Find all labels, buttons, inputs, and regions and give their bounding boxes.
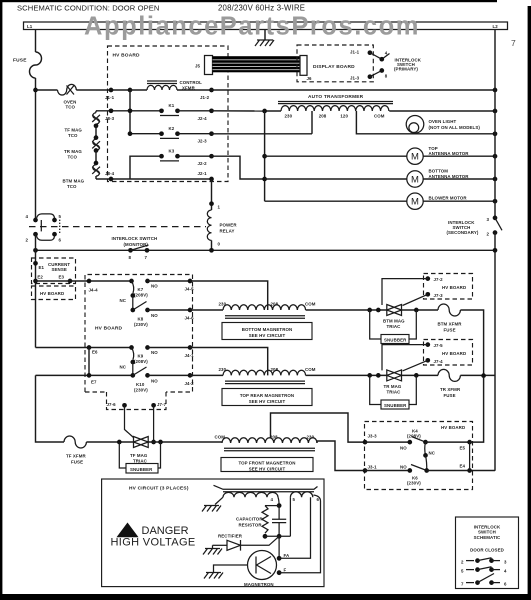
capacitor: [272, 506, 286, 537]
node left bus / oven TCO row: [33, 88, 38, 93]
svg-text:TCO: TCO: [66, 105, 76, 110]
ground at top bus: [255, 30, 274, 47]
svg-text:TR XFMR: TR XFMR: [440, 387, 461, 392]
wire blower motor row: [265, 200, 407, 202]
svg-text:AppliancePartsPros.com: AppliancePartsPros.com: [84, 13, 420, 41]
rectifier: [213, 534, 280, 551]
svg-text:J3-1: J3-1: [368, 464, 378, 469]
svg-text:TR MAG: TR MAG: [384, 384, 402, 389]
node E3: [68, 279, 73, 284]
node J2-2: [209, 154, 214, 159]
display board dashed outline: [297, 45, 373, 82]
svg-text:(208V): (208V): [134, 359, 148, 364]
svg-text:BOTTOM: BOTTOM: [429, 169, 449, 174]
svg-text:COM: COM: [374, 114, 385, 119]
oven TCO thermal cutout: [58, 84, 77, 109]
svg-text:SEE HV CIRCUIT: SEE HV CIRCUIT: [249, 333, 286, 338]
wire BTM triac right: [402, 309, 439, 311]
svg-text:TRIAC: TRIAC: [133, 459, 148, 464]
wire K3 row left with drop to J8-4 row: [130, 156, 162, 179]
svg-text:J6: J6: [307, 76, 313, 81]
node J2-1: [209, 177, 214, 182]
wire node to FA: [278, 536, 280, 558]
svg-text:M: M: [411, 197, 419, 208]
svg-text:FUSE: FUSE: [13, 58, 27, 64]
wire E5 to fuse junction drop: [470, 377, 484, 442]
wire node A to resistor: [265, 505, 279, 507]
wire E2-E3 to J4-4: [36, 280, 132, 282]
svg-text:CURRENT: CURRENT: [48, 262, 70, 267]
svg-text:J2-1: J2-1: [198, 171, 208, 176]
node J1-2: [209, 88, 214, 93]
wire top antenna motor to bus: [423, 155, 495, 157]
svg-text:NC: NC: [120, 365, 127, 370]
TCO chain top wire J8-3: [96, 110, 162, 112]
wire J2-4 to 230V tap junction: [212, 110, 265, 112]
wire J8-4 row: [96, 178, 212, 180]
top front magnetron callout box: [221, 458, 313, 472]
node J2-4: [209, 108, 214, 113]
svg-text:7: 7: [511, 38, 516, 48]
ribbon cable J5 to J6: [213, 56, 301, 72]
danger triangle: [117, 523, 139, 538]
node y250 left bus: [33, 248, 38, 253]
top rear magnetron callout box: [222, 389, 312, 406]
wire 230 tap to left: [265, 110, 281, 112]
node L2 bus row1: [493, 88, 498, 93]
svg-text:RESISTOR: RESISTOR: [239, 523, 263, 528]
node E2: [33, 279, 38, 284]
svg-text:J7-3: J7-3: [434, 293, 444, 298]
wire filament left drop: [289, 497, 291, 536]
node x130 row3: [128, 131, 133, 136]
page border right: [528, 6, 531, 600]
svg-text:TOP REAR MAGNETRON: TOP REAR MAGNETRON: [240, 393, 294, 398]
bottom magnetron callout box: [222, 323, 312, 340]
svg-text:J4-4: J4-4: [89, 288, 99, 293]
node J7-7 at wire: [151, 440, 156, 445]
svg-text:SCHEMATIC CONDITION: DOOR OPEN: SCHEMATIC CONDITION: DOOR OPEN: [17, 4, 160, 13]
ground at rectifier: [203, 545, 222, 554]
wire TR fuse to junction: [460, 374, 495, 376]
HV board (relay board) dashed outline: [85, 275, 193, 410]
svg-text:TRIAC: TRIAC: [387, 390, 402, 395]
relay contact K2: [159, 126, 180, 139]
node BTM snubber right: [414, 308, 419, 313]
node J3-3: [363, 440, 368, 445]
node J2-3: [209, 131, 214, 136]
relay contact K8: [130, 296, 158, 328]
wire 120 tap down and right: [356, 111, 495, 134]
bottom antenna motor: [407, 169, 470, 188]
svg-text:K10: K10: [136, 382, 145, 387]
svg-text:POWER: POWER: [220, 223, 238, 228]
svg-text:MAGNETRON: MAGNETRON: [244, 582, 274, 587]
BTM XFMR fuse: [438, 304, 463, 333]
page border bottom: [0, 594, 531, 600]
node TR snubber left: [367, 373, 372, 378]
svg-text:E7: E7: [91, 380, 97, 385]
node J4-1: [188, 345, 193, 350]
wire FA to filament: [279, 497, 310, 558]
wire K6 common to E4: [427, 470, 495, 472]
svg-text:OVEN LIGHT: OVEN LIGHT: [429, 119, 457, 124]
svg-text:TOP: TOP: [429, 146, 438, 151]
HV board (main) dashed outline: [108, 46, 229, 182]
node display J1-3: [368, 74, 373, 79]
top front magnetron transformer primary: [215, 435, 318, 451]
svg-text:J3-3: J3-3: [368, 434, 378, 439]
svg-text:E2: E2: [37, 275, 43, 280]
svg-text:E5: E5: [460, 446, 466, 451]
svg-text:TRIAC: TRIAC: [387, 324, 402, 329]
interlock switch secondary: [447, 216, 503, 237]
svg-text:TCO: TCO: [68, 133, 78, 138]
bottom magnetron transformer primary: [219, 302, 316, 319]
node relay on y250: [209, 248, 214, 253]
relay contact K1: [159, 103, 180, 116]
svg-text:SENSE: SENSE: [52, 267, 67, 272]
svg-text:J2-2: J2-2: [198, 161, 208, 166]
relay contact K6: [365, 464, 429, 485]
wire top antenna motor row: [265, 155, 407, 157]
node TR snubber right: [414, 373, 419, 378]
svg-text:E1: E1: [39, 265, 45, 270]
blower motor: [407, 193, 468, 209]
svg-text:(NOT ON ALL MODELS): (NOT ON ALL MODELS): [429, 125, 481, 130]
svg-text:NC: NC: [120, 298, 127, 303]
svg-text:K8: K8: [138, 317, 144, 322]
HV transformer secondary: [214, 485, 318, 502]
page border left: [0, 0, 2, 595]
wire K10 NO to J4-2: [148, 374, 191, 376]
left bus to TF fuse row: [36, 375, 65, 442]
svg-text:(230V): (230V): [134, 322, 148, 327]
svg-text:TR MAG: TR MAG: [64, 149, 82, 154]
wire J2-2 jog to bottom antenna row: [212, 156, 265, 179]
svg-text:J8-4: J8-4: [105, 171, 115, 176]
svg-text:HV BOARD: HV BOARD: [95, 326, 123, 332]
svg-text:HV BOARD: HV BOARD: [442, 285, 466, 290]
door switch row 2-3: [461, 558, 507, 565]
svg-text:TOP FRONT MAGNETRON: TOP FRONT MAGNETRON: [238, 461, 295, 466]
svg-text:TF MAG: TF MAG: [130, 453, 148, 458]
svg-text:SEE HV CIRCUIT: SEE HV CIRCUIT: [249, 399, 286, 404]
svg-text:NO: NO: [400, 446, 407, 451]
relay contact K10: [130, 362, 158, 393]
node J8-3: [109, 108, 114, 113]
svg-text:M: M: [411, 152, 419, 163]
wire K1 to J2-4: [178, 110, 212, 112]
svg-text:SNUBBER: SNUBBER: [384, 403, 407, 408]
svg-text:M: M: [411, 174, 419, 185]
svg-text:NO: NO: [400, 464, 407, 469]
svg-text:NO: NO: [151, 350, 158, 355]
wire bottom antenna motor to bus: [423, 178, 495, 180]
L1-L2 supply bus box: [24, 22, 508, 30]
svg-text:INTERLOCK SWITCH: INTERLOCK SWITCH: [112, 236, 158, 241]
wire J7-5 to triac: [382, 345, 428, 371]
vertical link x130 rows 1-3: [129, 90, 131, 134]
node E6: [87, 345, 92, 350]
TCO chain (TF/TR/BTM MAG TCO): [63, 111, 101, 189]
fuse (line fuse): [30, 52, 42, 78]
node display J1-1: [368, 50, 373, 55]
wire J7-3 gate: [403, 294, 428, 305]
L2 bus upper segment: [494, 30, 496, 218]
magnetron: [244, 551, 277, 588]
monitor switch contact 8-7: [128, 245, 149, 260]
svg-text:HV BOARD: HV BOARD: [441, 425, 465, 430]
wire E5-E4 link: [469, 442, 471, 470]
TF snubber: [119, 442, 160, 473]
J5 connector: [195, 56, 213, 75]
node row bottom: resistor: [263, 534, 268, 539]
svg-text:K1: K1: [169, 103, 175, 108]
wire oven TCO row: [36, 89, 58, 91]
svg-text:HV CIRCUIT (3 PLACES): HV CIRCUIT (3 PLACES): [129, 486, 189, 492]
wire 208 tap down: [311, 111, 313, 134]
wire J2-3 to 208V tap: [212, 133, 313, 135]
svg-text:E6: E6: [92, 350, 98, 355]
wire K7 NO to J4-5: [148, 280, 191, 282]
auto transformer: [278, 94, 393, 119]
node E5: [467, 440, 472, 445]
svg-text:(PRIMARY): (PRIMARY): [394, 67, 418, 72]
wire E7 row: [36, 374, 133, 376]
svg-text:NC: NC: [429, 451, 436, 456]
svg-text:J8-3: J8-3: [105, 116, 115, 121]
svg-text:SNUBBER: SNUBBER: [130, 467, 153, 472]
svg-text:SNUBBER: SNUBBER: [384, 338, 407, 343]
svg-text:BLOWER MOTOR: BLOWER MOTOR: [429, 196, 468, 201]
svg-text:J7-2: J7-2: [434, 277, 444, 282]
svg-text:J1-1: J1-1: [105, 95, 115, 100]
svg-text:J1-3: J1-3: [350, 76, 360, 81]
wire row1 to control xfmr: [130, 89, 147, 91]
svg-text:J5: J5: [195, 64, 201, 69]
wire K2 row left: [130, 133, 162, 135]
relay contact K7: [120, 279, 159, 303]
svg-text:K2: K2: [169, 126, 175, 131]
svg-text:J4-5: J4-5: [185, 287, 195, 292]
relay contact K4: [365, 429, 436, 471]
svg-text:BOTTOM MAGNETRON: BOTTOM MAGNETRON: [242, 327, 293, 332]
wire J4-6 to 230 tap: [190, 309, 223, 311]
svg-text:208: 208: [319, 114, 327, 119]
door switch row 7-6: [461, 574, 507, 587]
svg-text:COM: COM: [305, 302, 316, 307]
svg-text:J2-4: J2-4: [198, 116, 208, 121]
node E4: [467, 468, 472, 473]
node TR triac left: [376, 373, 381, 378]
node fuse junction: [481, 373, 486, 378]
wire tap4 to node A: [278, 497, 279, 505]
wire TF 230 tap to J3-1: [317, 441, 365, 471]
wire J1-2 to L2 bus: [212, 89, 496, 91]
svg-text:FUSE: FUSE: [444, 328, 456, 333]
ground at HV secondary left: [202, 497, 223, 511]
BTM MAG triac: [383, 304, 405, 329]
wire K2 to J2-3: [178, 133, 212, 135]
wire oven TCO to J1-1: [76, 89, 130, 91]
node J4-4: [87, 279, 92, 284]
mechanical linkage dashed line: [29, 226, 206, 228]
TR XFMR fuse: [438, 369, 461, 398]
resistor: [236, 506, 268, 534]
svg-text:HIGH VOLTAGE: HIGH VOLTAGE: [111, 536, 196, 548]
node J7-6: [122, 403, 127, 408]
node BTM snubber left: [367, 308, 372, 313]
wire TF triac right: [148, 441, 222, 443]
svg-text:(208V): (208V): [134, 293, 148, 298]
svg-text:DANGER: DANGER: [142, 525, 189, 537]
top antenna motor: [407, 146, 470, 165]
svg-text:FUSE: FUSE: [71, 460, 83, 465]
svg-text:J7-5: J7-5: [434, 343, 444, 348]
svg-text:230: 230: [285, 114, 293, 119]
svg-text:J1-2: J1-2: [200, 95, 210, 100]
relay contact K3: [159, 148, 180, 161]
interlock switch schematic box: [456, 517, 519, 589]
door switch row 5-4: [461, 567, 507, 574]
svg-text:230: 230: [219, 367, 227, 372]
wire blower motor to bus: [423, 200, 495, 202]
svg-text:J2-3: J2-3: [198, 139, 208, 144]
svg-text:TF XFMR: TF XFMR: [66, 454, 86, 459]
wire J7-2 to triac: [382, 279, 428, 305]
HV circuit detail box: [102, 479, 324, 587]
HV board label box small: [32, 286, 76, 300]
svg-text:TF MAG: TF MAG: [65, 128, 83, 133]
svg-text:J7-6: J7-6: [107, 402, 117, 407]
wire K3 to J2-2: [178, 155, 212, 157]
svg-text:HV BOARD: HV BOARD: [442, 351, 466, 356]
node feeder top antenna: [262, 154, 267, 159]
svg-text:ANTENNA MOTOR: ANTENNA MOTOR: [429, 174, 470, 179]
wire TF 208 tap to J3-3: [271, 413, 366, 442]
svg-text:J4-2: J4-2: [185, 381, 195, 386]
left bus monitor to E-rows: [35, 234, 37, 347]
wire J7-7 down: [153, 405, 155, 442]
svg-text:(230V): (230V): [407, 481, 421, 486]
J7-2/J7-3 HV board box: [424, 274, 473, 300]
control transformer: [147, 80, 202, 91]
node feeder bottom antenna: [262, 177, 267, 182]
node E7: [87, 373, 92, 378]
wire monitor row y250: [36, 249, 496, 251]
ground at magnetron: [204, 565, 248, 579]
J6 connector: [300, 56, 312, 82]
svg-text:(SECONDARY): (SECONDARY): [447, 230, 479, 235]
wire bottom antenna motor row: [265, 178, 407, 180]
svg-text:SEE HV CIRCUIT: SEE HV CIRCUIT: [249, 466, 286, 471]
svg-text:E3: E3: [59, 275, 65, 280]
svg-text:DISPLAY BOARD: DISPLAY BOARD: [313, 64, 355, 70]
svg-text:J4-6: J4-6: [185, 316, 195, 321]
relay contact K9: [120, 345, 159, 369]
L2 bus lower segment: [494, 233, 496, 471]
wire COM to L2 bus: [389, 110, 495, 112]
node 230 tap junction: [262, 109, 267, 114]
vertical feeder x264.6 to motors: [264, 111, 266, 201]
wire COM to BTM triac: [306, 309, 387, 311]
K4/K6 HV board dashed box: [365, 422, 473, 490]
TR MAG triac: [384, 370, 402, 395]
svg-text:L1: L1: [27, 24, 33, 29]
wire J4-2 to 230 tap: [190, 374, 223, 376]
top rear magnetron transformer primary: [219, 367, 316, 384]
svg-text:NO: NO: [151, 379, 158, 384]
svg-text:CAPACITOR: CAPACITOR: [236, 517, 263, 522]
wire COM to TR triac: [306, 374, 387, 376]
power relay coil: [207, 179, 237, 250]
svg-text:AUTO TRANSFORMER: AUTO TRANSFORMER: [308, 94, 364, 100]
wire L1 drop to fuse: [35, 30, 37, 53]
wire E6 to E7: [88, 348, 90, 376]
wire node row: [265, 535, 290, 537]
node L2 bus oven light: [493, 131, 498, 136]
svg-text:J4-1: J4-1: [185, 353, 195, 358]
node J4-6: [188, 308, 193, 313]
wire K8 NO to J4-6: [148, 309, 191, 311]
svg-text:J7-7: J7-7: [157, 402, 167, 407]
svg-text:NO: NO: [151, 284, 158, 289]
wire TR triac right: [402, 374, 439, 376]
wire BTM fuse to drop: [460, 310, 483, 376]
svg-text:K7: K7: [138, 287, 144, 292]
svg-text:F: F: [284, 568, 287, 573]
wire J7-4 gate: [403, 360, 428, 371]
interlock switch monitor: [26, 214, 62, 243]
node J4-2: [188, 373, 193, 378]
svg-text:RECTIFIER: RECTIFIER: [218, 534, 243, 539]
svg-text:BTM MAG: BTM MAG: [63, 179, 85, 184]
svg-text:TCO: TCO: [67, 184, 77, 189]
TF MAG triac: [130, 436, 148, 463]
svg-text:BTM XFMR: BTM XFMR: [438, 322, 463, 327]
svg-text:120: 120: [340, 114, 348, 119]
svg-text:DOOR CLOSED: DOOR CLOSED: [470, 548, 504, 553]
svg-text:K3: K3: [169, 148, 175, 153]
node J1-1: [109, 88, 114, 93]
svg-text:L2: L2: [493, 24, 499, 29]
svg-text:J1-1: J1-1: [350, 50, 360, 55]
node J8-4: [109, 177, 114, 182]
BTM snubber: [370, 310, 417, 344]
node TF snubber left: [117, 440, 122, 445]
wire E6 row: [36, 347, 132, 349]
svg-text:J7-4: J7-4: [434, 359, 444, 364]
wire TF fuse to triac: [86, 441, 133, 443]
svg-text:FA: FA: [284, 553, 291, 558]
node TF snubber right: [158, 440, 163, 445]
node row bottom: main: [277, 534, 282, 539]
svg-text:ANTENNA MOTOR: ANTENNA MOTOR: [429, 151, 470, 156]
node J3-1: [363, 468, 368, 473]
HV secondary filament winding: [290, 492, 319, 502]
wire left bus fuse to oven TCO row: [35, 78, 37, 220]
node x130 row2: [128, 108, 133, 113]
svg-text:NO: NO: [151, 313, 158, 318]
wire K9 NO to J4-1: [148, 347, 191, 349]
wire control xfmr to J1-2: [177, 89, 212, 91]
current sense dashed box: [32, 258, 76, 284]
svg-text:SCHEMATIC: SCHEMATIC: [474, 535, 501, 540]
svg-text:TCO: TCO: [68, 154, 78, 159]
wire F to filament: [279, 495, 320, 573]
TR snubber: [370, 375, 417, 409]
